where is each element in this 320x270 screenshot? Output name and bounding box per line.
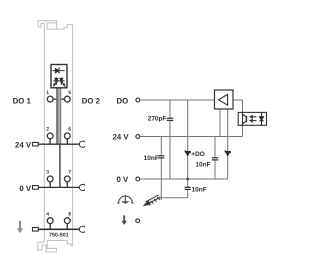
svg-text:24 V: 24 V <box>15 141 32 150</box>
svg-text:2: 2 <box>46 127 49 133</box>
svg-text:10nF: 10nF <box>144 155 159 162</box>
svg-text:8: 8 <box>68 211 71 217</box>
svg-text:270pF: 270pF <box>148 115 167 122</box>
svg-text:3: 3 <box>46 170 49 176</box>
svg-text:6: 6 <box>68 127 71 133</box>
svg-text:+DO: +DO <box>191 151 205 158</box>
svg-text:0 V: 0 V <box>19 184 32 193</box>
svg-text:5: 5 <box>68 90 71 96</box>
svg-text:7: 7 <box>68 170 71 176</box>
svg-text:0 V: 0 V <box>116 175 129 184</box>
svg-text:750-501: 750-501 <box>49 233 69 239</box>
svg-text:10nF: 10nF <box>195 162 210 169</box>
svg-text:DO 1: DO 1 <box>13 97 32 106</box>
svg-text:10nF: 10nF <box>192 187 207 194</box>
svg-text:DO 2: DO 2 <box>82 97 101 106</box>
svg-text:DO: DO <box>116 96 128 105</box>
svg-text:24 V: 24 V <box>113 133 130 142</box>
svg-text:1: 1 <box>46 90 49 96</box>
svg-text:4: 4 <box>46 211 49 217</box>
